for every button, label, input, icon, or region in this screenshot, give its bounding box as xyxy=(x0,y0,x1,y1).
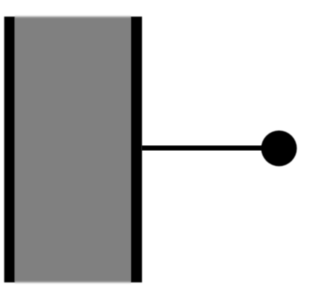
plate body xyxy=(15,17,131,283)
node A xyxy=(261,131,297,167)
left plate electrode bar xyxy=(4,17,15,283)
right plate electrode bar xyxy=(131,17,142,283)
wire xyxy=(142,146,272,151)
